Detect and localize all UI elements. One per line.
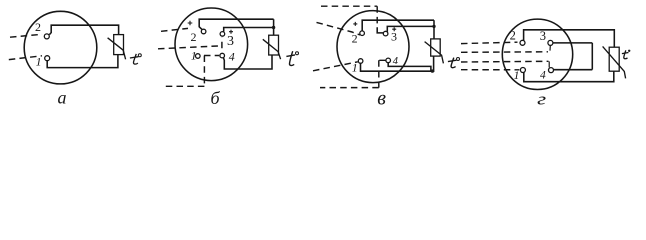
svg-text:4: 4 [229, 49, 235, 63]
terminal 2 (a) [44, 34, 49, 39]
wire junction to resistor top (v) [433, 20, 435, 39]
external dashed wire to terminal 2 (v) [317, 22, 361, 35]
terminal 1 (v) [358, 59, 363, 64]
connection head circle (a) [24, 11, 97, 84]
svg-text:4: 4 [540, 70, 546, 82]
resistor RK body (v) [431, 39, 441, 56]
terminal 2 (g) [520, 40, 525, 45]
wire terminal4 to resistor bottom (b) [223, 55, 272, 69]
wire terminal3 to junction (b) [224, 28, 274, 32]
wire terminal4 to junction bottom (v) [388, 63, 431, 71]
terminal 1 (b) [196, 54, 201, 59]
connection head circle (g) [502, 19, 572, 89]
plus mark at terminal 2 (v) [353, 22, 357, 26]
svg-text:1: 1 [514, 70, 520, 82]
wire junction to resistor top (b) [273, 19, 275, 35]
plus mark at terminal 3 (v) [392, 27, 396, 31]
label t deg (b) [286, 51, 295, 65]
wire terminal1 to resistor bottom (a) [47, 55, 118, 68]
svg-text:а: а [58, 87, 67, 107]
degree mark (a) [138, 54, 141, 57]
label t deg (a) [130, 54, 139, 64]
junction dot top (v) [432, 25, 435, 28]
junction dot bottom (v) [431, 69, 434, 72]
svg-text:3: 3 [227, 34, 234, 49]
corner link to terminal 3 (v) [377, 27, 383, 33]
resistor RK (thermistor) body (a) [114, 35, 124, 55]
external dashed wire to terminal 4 (v) [320, 60, 386, 87]
terminal 4 (g) [549, 68, 554, 73]
bus vertical terminal3-terminal4 (g) [591, 43, 593, 70]
wire terminal2 to junction (b) [199, 19, 273, 30]
resistor RK body (g) [609, 47, 619, 71]
terminal 1 (a) [45, 56, 50, 61]
plus mark at terminal 3 (b) [229, 30, 233, 34]
thermistor diagonal strike (a) [108, 38, 126, 60]
terminal 2 (b) [201, 29, 206, 34]
connection head circle (b) [175, 8, 248, 81]
plus mark at terminal 2 (b) [188, 21, 193, 26]
svg-text:3: 3 [540, 29, 546, 43]
svg-text:2: 2 [510, 29, 516, 43]
svg-text:б: б [211, 88, 221, 108]
terminal 4 (b) [220, 53, 225, 58]
external dashed wire 4 to terminal 1 (g) [461, 69, 519, 71]
svg-text:г: г [537, 90, 546, 109]
stub dashed line3 to terminal 4 (g) [548, 61, 550, 67]
label t deg (v) [448, 58, 457, 68]
thermistor diagonal strike (v) [425, 42, 444, 64]
wire terminal3 to bus (g) [553, 42, 592, 44]
thermistor diagonal strike (g) [603, 46, 626, 78]
label t deg (g) [622, 50, 629, 58]
svg-text:в: в [377, 87, 386, 109]
wire terminal3 to junction (v) [387, 26, 434, 31]
wire terminal1 to resistor bottom (v) [361, 56, 434, 71]
wire terminal2 to resistor top (g) [524, 30, 615, 47]
svg-text:3: 3 [391, 30, 397, 44]
degree mark (g) [628, 50, 630, 52]
junction dot (b) [272, 26, 275, 29]
svg-text:4: 4 [393, 56, 399, 67]
degree mark (v) [457, 58, 460, 61]
external dashed wire to terminal 4 (b) [165, 56, 219, 87]
thermistor diagonal strike (b) [263, 39, 281, 59]
terminal 2 (v) [360, 31, 365, 36]
degree mark (b) [296, 52, 299, 55]
svg-text:1: 1 [36, 54, 42, 68]
external dashed wire 2 to terminal 3 (g) [461, 51, 548, 54]
wire terminal4 to bus (g) [553, 69, 592, 71]
terminal 3 (b) [220, 32, 225, 37]
svg-text:2: 2 [352, 32, 358, 46]
external dashed wire to terminal 1 (a) [9, 56, 42, 60]
terminal 3 (g) [548, 40, 553, 45]
external dashed wire 3 to terminal 4 (g) [461, 60, 549, 63]
external dashed wire 1 to terminal 2 (g) [461, 42, 518, 43]
wire terminal2 to resistor top (a) [49, 25, 118, 34]
external dashed wire to terminal 2 (a) [10, 34, 42, 37]
svg-text:2: 2 [35, 20, 41, 34]
terminal 4 (v) [386, 58, 391, 63]
stub dashed line2 to terminal 3 (g) [549, 46, 551, 51]
resistor RK body (b) [269, 35, 279, 55]
external dashed wire to terminal 3 (b) [158, 37, 222, 48]
terminal 1 (g) [520, 68, 525, 73]
svg-text:2: 2 [191, 30, 197, 44]
wire terminal2 to junction (v) [362, 20, 434, 31]
external dashed wire to terminal 2 (b) [161, 28, 188, 31]
external dashed wire to terminal 1 (v) [313, 62, 358, 71]
terminal 3 (v) [383, 31, 388, 36]
connection head circle (v) [337, 11, 409, 83]
svg-text:1: 1 [352, 60, 358, 74]
external dashed wire top to terminal 3 (v) [321, 6, 377, 27]
wire terminal1 to resistor bottom (g) [524, 71, 614, 81]
